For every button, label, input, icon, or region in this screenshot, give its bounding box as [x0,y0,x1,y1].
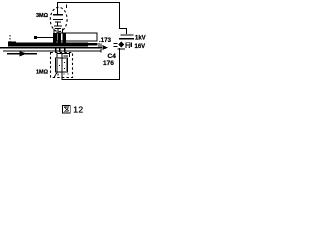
svg-text:176: 176 [103,60,114,67]
svg-text:1kV: 1kV [135,36,146,42]
plate line 2 [3,50,101,51]
svg-text:3MΩ: 3MΩ [36,13,49,19]
wire bottom: V2 cathode to right rail [62,48,120,80]
tube V1 plate [53,14,63,16]
tube V2 top brackets [57,54,70,59]
chamber right-end dashes [98,43,99,48]
caption 图 12 [62,105,70,112]
chamber body outline [57,33,98,41]
socket bar 2 [58,33,61,44]
tube V2 leg marks [54,73,57,78]
chamber band thin right part [88,43,98,46]
svg-text:12: 12 [73,105,83,115]
tube V2 base dots [64,74,65,75]
window dashed marks [10,35,11,37]
arrow at right end of plate 1 [103,45,109,50]
tick at end of plate 2 [101,49,102,53]
svg-text:1MΩ: 1MΩ [36,70,49,76]
tube V1 cathode [57,23,58,26]
wire jog into battery [120,29,127,35]
socket bar 3 [62,33,65,44]
svg-text:16V: 16V [135,44,146,50]
meter terminal tick [131,43,132,48]
tube V2 pins from band [55,47,57,52]
tube V2 inner electrode box [56,58,68,72]
socket bar 1 [53,33,56,44]
tube V1 pins [54,29,55,34]
tube V1 grid [53,19,63,20]
tube V2 inner cathode line [62,58,63,72]
beam arrow [7,53,37,54]
battery B1 plates [121,34,134,35]
grid lead left with terminal [34,36,37,39]
tube V1 top-cap tick [66,5,67,9]
meter base bar [118,48,126,49]
meter needle diamond [118,42,124,48]
wire top: anode of V1 to right rail [58,3,120,30]
plate line 1 [0,47,102,48]
meter glyph [126,43,130,48]
meter polarity dashes [114,43,118,44]
svg-text:.173: .173 [99,38,112,44]
tube V1 envelope (dashed) [50,7,67,31]
chamber top electrode (filled band) [8,42,88,46]
tube V2 envelope (dashed) [51,53,73,78]
